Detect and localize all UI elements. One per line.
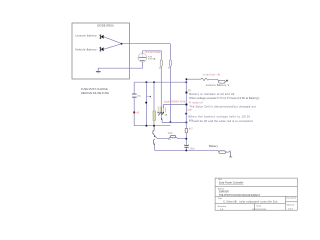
svg-text:Date: Date (257, 205, 262, 208)
resistor R4 horizontal (171, 135, 176, 138)
svg-text:(clip: (clip (187, 108, 192, 111)
svg-text:Revision: Revision (218, 206, 227, 208)
svg-text:(A): (A) (188, 89, 192, 92)
svg-text:solar/batt +B: solar/batt +B (203, 73, 220, 77)
svg-text:100u: 100u (189, 147, 195, 150)
svg-text:T could be off and the solar c: T could be off and the solar cell is re-… (189, 119, 253, 123)
pin relay K1 pin end (160, 118, 162, 120)
title block (215, 178, 297, 210)
svg-text:THE PHOTOVOLTAIC/SOLAR EFFECT: THE PHOTOVOLTAIC/SOLAR EFFECT (219, 194, 261, 197)
svg-text:Author:: Author: (218, 187, 225, 190)
node dot bus end x186 (185, 81, 187, 83)
wire D2 to junction (104, 44, 122, 49)
wire bus corner down to C1 (133, 82, 135, 92)
node dot relay top right (185, 103, 187, 105)
capacitor C2 (184, 145, 188, 147)
relay arrow (158, 113, 163, 116)
wire branch y79 (186, 78, 201, 80)
svg-text:SWRVER: SWRVER (219, 192, 229, 194)
resistor R5 vertical on rail (185, 128, 188, 133)
wire cap down to corner (134, 98, 170, 126)
wire Q1 emitter to resistor (155, 136, 186, 138)
svg-text:Document: Document (287, 197, 297, 200)
wire relay bottom loop (162, 119, 186, 123)
svg-text:File:: File: (218, 198, 222, 200)
fuse F1 (219, 80, 225, 83)
wire source top to R1 (142, 51, 161, 60)
solar source V1 (138, 53, 147, 62)
wire relay top loop (164, 105, 187, 109)
diode OR box (72, 23, 130, 79)
relay K1 pins (158, 106, 166, 112)
annotation marker 2 (186, 104, 188, 106)
annotation marker 3 (185, 113, 187, 115)
svg-text:Vehicle Battery: Vehicle Battery (75, 48, 97, 52)
node dot bus x146 (145, 81, 147, 83)
relay K1 pin pads (158, 112, 164, 113)
svg-text:4k7: 4k7 (189, 127, 194, 130)
node dot y122 x170 (169, 121, 171, 123)
wire stub no-connect x146 (146, 96, 150, 98)
svg-text:When the battery voltage falls: When the battery voltage falls to 10/10 (188, 115, 250, 119)
annotation marker 1 (186, 92, 188, 94)
wire main output to R2 drop (122, 43, 171, 45)
node dot y125 x146 (145, 125, 147, 127)
node junction of diodes (121, 43, 123, 45)
node dot x146 y102 (145, 102, 147, 104)
wire R2 vertical (169, 44, 171, 123)
node dot y125 x154 (153, 125, 155, 127)
svg-text:1 of 1: 1 of 1 (288, 209, 294, 211)
capacitor C1 (132, 94, 137, 97)
bottom wire (155, 150, 220, 151)
svg-text:Battery to maintain at 23 and: Battery to maintain at 23 and 46 (189, 92, 234, 96)
wire source bottom to plus port (98, 62, 142, 71)
node dot branch start (186, 78, 188, 80)
terminal battery minus (229, 151, 232, 157)
svg-text:Solar Power Controller: Solar Power Controller (219, 182, 244, 185)
terminal pad top branch (226, 80, 228, 82)
resistor R2 (169, 60, 171, 66)
wire D1 to junction (104, 37, 122, 44)
wire right rail x186 (185, 79, 187, 150)
svg-text:09/19/2009: 09/19/2009 (252, 209, 266, 211)
svg-text:diode R29/K6 4148: diode R29/K6 4148 (164, 101, 186, 104)
svg-text:R mode uA: R mode uA (189, 100, 203, 104)
node dot bus x154 (153, 81, 155, 83)
pin pad stub end (150, 96, 151, 97)
diode D2 (99, 47, 103, 52)
svg-text:REMOVE INLINE FUSE: REMOVE INLINE FUSE (81, 91, 109, 95)
node dot bottom rail (185, 149, 187, 151)
svg-text:C:\Users\B.. solar solarpane: C:\Users\B.. solar solarpanel controller… (223, 201, 278, 204)
node dot relay bottom right (185, 121, 187, 123)
svg-text:Sheet of: Sheet of (287, 204, 295, 207)
svg-text:The Solar Cell is disconnected: The Solar Cell is disconnected/cut charg… (189, 104, 256, 108)
power port plus (96, 71, 101, 72)
svg-text:100k: 100k (168, 133, 174, 135)
svg-text:Battery: Battery (209, 144, 218, 148)
transistor Q2 (153, 139, 154, 145)
wire zigzag to fuse (209, 79, 219, 81)
fuse F2 (219, 151, 226, 154)
inductor/zigzag SW1 (201, 78, 209, 80)
diode D1 (99, 35, 103, 40)
bus wire (134, 81, 186, 83)
wire x146 vertical (145, 82, 147, 126)
wire R1 vertical down (160, 66, 162, 118)
svg-text:DIODE OR(G): DIODE OR(G) (97, 23, 114, 27)
svg-text:12V 5A: 12V 5A (148, 58, 156, 61)
transistor Q1 (153, 126, 155, 136)
svg-text:+B: +B (136, 112, 139, 115)
svg-text:When voltage exceeds 5.7V (4.7: When voltage exceeds 5.7V (4.7V base (13… (189, 96, 259, 100)
svg-text:FUSE MUST CHARGE: FUSE MUST CHARGE (81, 87, 108, 91)
svg-text:Leisure Battery V: Leisure Battery V (206, 83, 230, 87)
resistor R3 beige vertical (153, 111, 156, 121)
node dot rail y138 (185, 138, 187, 140)
resistor R1 (160, 60, 162, 66)
svg-text:Leisure battery: Leisure battery (75, 34, 97, 38)
node red dot x134 (133, 111, 135, 113)
wire Q2 emitter down to rail (154, 145, 156, 151)
wire x154 vertical (153, 82, 155, 126)
svg-text:SOLAR PANEL: SOLAR PANEL (145, 51, 162, 54)
